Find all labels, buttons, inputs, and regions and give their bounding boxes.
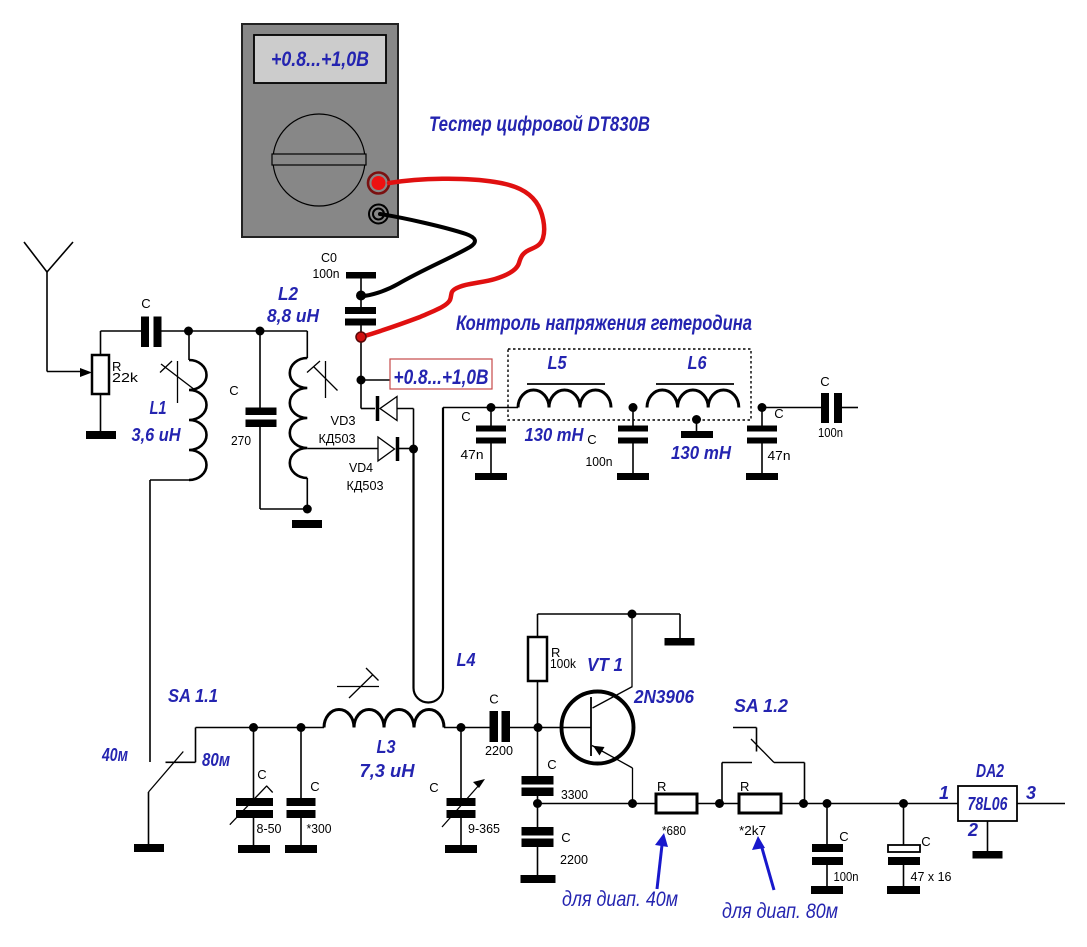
svg-text:L5: L5 xyxy=(548,353,568,373)
ground xyxy=(617,473,649,480)
svg-text:3300: 3300 xyxy=(561,787,588,802)
SA1.1 contact 80m xyxy=(195,728,197,763)
wire xyxy=(397,408,414,410)
svg-text:C: C xyxy=(587,432,596,447)
svg-text:2200: 2200 xyxy=(485,743,513,758)
svg-text:C: C xyxy=(547,757,556,772)
svg-text:L3: L3 xyxy=(377,737,396,757)
svg-text:100n: 100n xyxy=(818,425,843,440)
svg-text:R: R xyxy=(657,779,666,794)
node VD output xyxy=(409,445,418,454)
ground xyxy=(238,845,270,853)
SA1.2 lever xyxy=(751,739,774,763)
wire xyxy=(360,326,362,409)
ground xyxy=(292,520,322,528)
capacitor C 8-50 (trimmer) xyxy=(253,728,255,799)
node xyxy=(487,403,496,412)
wire xyxy=(697,803,739,805)
resistor R 100k xyxy=(528,637,547,681)
wire xyxy=(842,407,858,409)
ground xyxy=(746,473,778,480)
wire xyxy=(510,727,591,729)
svg-text:C: C xyxy=(229,383,238,398)
wire xyxy=(161,330,307,332)
capacitor C 2200 (lower) xyxy=(537,796,539,827)
node xyxy=(297,723,306,732)
capacitor C 47x16 electrolytic xyxy=(903,804,905,846)
svg-text:C: C xyxy=(141,296,150,311)
svg-text:L1: L1 xyxy=(150,398,167,418)
svg-text:КД503: КД503 xyxy=(319,431,356,446)
svg-text:C: C xyxy=(257,767,266,782)
capacitor C *300 xyxy=(300,728,302,799)
node xyxy=(899,799,908,808)
capacitor C 3300 xyxy=(537,728,539,777)
resistor R *2k7 xyxy=(739,794,781,813)
wire xyxy=(781,803,958,805)
svg-text:3,6 иН: 3,6 иН xyxy=(132,425,182,445)
svg-text:C: C xyxy=(310,779,319,794)
svg-text:для диап. 40м: для диап. 40м xyxy=(562,888,678,911)
node xyxy=(629,403,638,412)
svg-text:VT 1: VT 1 xyxy=(587,655,623,675)
annotation arrow 80m xyxy=(762,848,774,890)
svg-text:22k: 22k xyxy=(112,370,139,385)
svg-text:2N3906: 2N3906 xyxy=(633,687,695,707)
annotation arrow 40m xyxy=(657,845,662,889)
svg-text:270: 270 xyxy=(231,433,251,448)
svg-text:C: C xyxy=(921,834,930,849)
wire xyxy=(148,792,150,844)
wire filter line xyxy=(443,407,518,409)
svg-text:7,3 иН: 7,3 иН xyxy=(360,761,416,781)
node xyxy=(628,610,637,619)
inductor L2 xyxy=(306,331,308,358)
L3 trimmer arrow xyxy=(337,686,379,688)
svg-text:Тестер цифровой DT830B: Тестер цифровой DT830B xyxy=(429,113,650,136)
svg-text:80м: 80м xyxy=(202,750,230,770)
svg-text:47 x 16: 47 x 16 xyxy=(911,869,952,884)
svg-text:C: C xyxy=(429,780,438,795)
capacitor C0 top plate xyxy=(346,272,376,279)
resistor R 22k xyxy=(92,355,109,394)
black probe wire xyxy=(362,214,475,296)
wire emitter line xyxy=(538,803,657,805)
shield box (dashed) xyxy=(508,349,751,420)
svg-text:100n: 100n xyxy=(313,266,340,281)
capacitor C0 plates xyxy=(345,307,376,314)
node red probe xyxy=(356,332,366,342)
wire xyxy=(360,279,362,308)
svg-text:3: 3 xyxy=(1026,783,1036,803)
svg-text:C0: C0 xyxy=(321,250,337,265)
svg-text:DA2: DA2 xyxy=(976,761,1004,781)
svg-text:130 mH: 130 mH xyxy=(671,443,732,463)
node xyxy=(256,327,265,336)
svg-text:+0.8...+1,0В: +0.8...+1,0В xyxy=(394,366,489,389)
DA2 ground pin 2 xyxy=(987,821,989,851)
svg-text:*2k7: *2k7 xyxy=(739,823,766,838)
svg-text:*680: *680 xyxy=(662,823,686,838)
node xyxy=(715,799,724,808)
node xyxy=(823,799,832,808)
wire xyxy=(306,478,308,513)
node xyxy=(758,403,767,412)
L1 trimmer arrow xyxy=(161,364,195,390)
svg-text:C: C xyxy=(820,374,829,389)
capacitor C 9-365 (variable) xyxy=(460,728,462,799)
diode VD4 KD503 xyxy=(378,437,395,461)
wire xyxy=(100,331,102,355)
inductor L4 xyxy=(414,408,444,703)
wire L2 tap to VD4 xyxy=(307,448,378,450)
wire xyxy=(361,408,375,410)
ground xyxy=(285,845,317,853)
voltage annotation box +0.8...+1,0V xyxy=(390,359,492,389)
node xyxy=(249,723,258,732)
svg-text:L4: L4 xyxy=(457,650,476,670)
svg-text:*300: *300 xyxy=(307,821,332,836)
ground xyxy=(86,431,116,439)
svg-text:C: C xyxy=(489,692,498,707)
svg-text:2: 2 xyxy=(967,820,978,840)
svg-text:8-50: 8-50 xyxy=(257,821,282,836)
inductor L1 xyxy=(188,331,190,360)
capacitor C 100n (emitter line) xyxy=(826,804,828,845)
multimeter DT830B body xyxy=(242,24,398,237)
L2 trimmer arrow xyxy=(314,367,338,391)
wire xyxy=(150,479,189,481)
ground xyxy=(521,875,556,883)
svg-text:Контроль напряжения гетеродина: Контроль напряжения гетеродина xyxy=(456,312,752,335)
wire to voltage box xyxy=(361,379,390,381)
wire output xyxy=(1017,803,1065,805)
node xyxy=(457,723,466,732)
diode VD3 KD503 xyxy=(376,396,380,421)
svg-text:R: R xyxy=(740,779,749,794)
node xyxy=(184,327,193,336)
resistor R *680 xyxy=(656,794,697,813)
node xyxy=(533,799,542,808)
ground xyxy=(811,886,843,894)
node xyxy=(799,799,808,808)
red probe jack xyxy=(368,173,389,194)
svg-text:47n: 47n xyxy=(461,447,484,462)
svg-text:C: C xyxy=(561,830,570,845)
ground xyxy=(887,886,920,894)
ground xyxy=(665,638,695,646)
wire xyxy=(762,407,821,409)
multimeter rotary dial xyxy=(273,114,365,206)
svg-text:C: C xyxy=(461,409,470,424)
svg-text:+0.8...+1,0В: +0.8...+1,0В xyxy=(271,48,369,71)
ground xyxy=(475,473,507,480)
node xyxy=(628,799,637,808)
svg-text:8,8 иН: 8,8 иН xyxy=(267,306,320,326)
multimeter LCD display xyxy=(254,35,386,83)
svg-text:VD3: VD3 xyxy=(331,413,356,428)
svg-text:КД503: КД503 xyxy=(347,478,384,493)
svg-text:100n: 100n xyxy=(834,869,859,884)
svg-text:78L06: 78L06 xyxy=(968,794,1009,814)
svg-text:VD4: VD4 xyxy=(349,460,373,475)
svg-text:1: 1 xyxy=(939,783,949,803)
wire xyxy=(100,394,102,431)
svg-text:130 mH: 130 mH xyxy=(525,425,585,445)
svg-text:100n: 100n xyxy=(586,454,613,469)
transistor VT1 2N3906 xyxy=(562,692,634,764)
svg-text:100k: 100k xyxy=(550,656,576,671)
svg-text:47n: 47n xyxy=(768,448,791,463)
node test point xyxy=(357,376,366,385)
wire top rail xyxy=(537,614,539,637)
shield ground tap xyxy=(692,415,701,424)
wire main lower line xyxy=(196,727,325,729)
red probe wire xyxy=(363,179,544,337)
SA1.1 lever xyxy=(149,752,184,793)
svg-text:2200: 2200 xyxy=(560,852,588,867)
capacitor C 270 xyxy=(259,331,261,408)
svg-text:SA 1.1: SA 1.1 xyxy=(168,686,218,706)
wire xyxy=(537,681,539,728)
ground xyxy=(445,845,477,853)
svg-text:для диап. 80м: для диап. 80м xyxy=(722,900,838,923)
svg-text:SA 1.2: SA 1.2 xyxy=(734,696,788,716)
node xyxy=(303,505,312,514)
svg-text:L6: L6 xyxy=(688,353,708,373)
node xyxy=(534,723,543,732)
svg-text:9-365: 9-365 xyxy=(468,821,500,836)
black probe jack xyxy=(369,205,388,224)
svg-text:L2: L2 xyxy=(278,284,298,304)
wire xyxy=(679,614,681,638)
inductor L3 xyxy=(324,710,444,728)
node black probe xyxy=(356,291,366,301)
wire xyxy=(444,727,490,729)
svg-text:40м: 40м xyxy=(101,745,128,765)
svg-text:C: C xyxy=(839,829,848,844)
ground xyxy=(134,844,164,852)
antenna xyxy=(24,242,47,272)
